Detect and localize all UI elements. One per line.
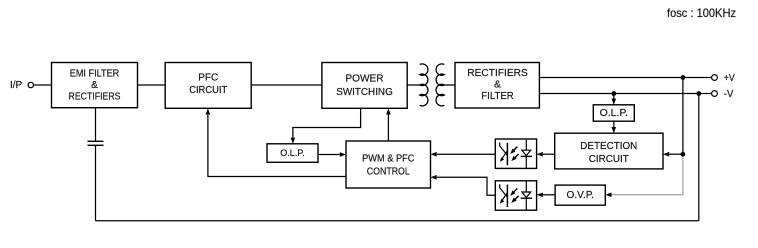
block DETECTION CIRCUIT	[555, 133, 663, 169]
svg-text:CIRCUIT: CIRCUIT	[589, 154, 629, 165]
svg-text:&: &	[494, 79, 501, 90]
wire POWER SWITCHING to primary O.L.P. with down arrow	[291, 108, 361, 143]
junction on -V line right	[696, 91, 701, 96]
transformer T1 secondary winding	[436, 64, 444, 106]
wire O.V.P. to opto2 with left arrow	[537, 193, 556, 198]
wire transformer secondary to rectifiers	[444, 84, 455, 86]
capacitor C1	[88, 141, 104, 145]
wire EMI to PFC	[138, 84, 166, 86]
wire junction to DETECTION CIRCUIT right with left arrow	[663, 152, 683, 157]
wire -V line to O.L.P. with down arrow	[612, 94, 617, 105]
block PFC CIRCUIT	[165, 63, 251, 109]
block O.L.P. (primary side)	[267, 144, 318, 163]
wire +V output line	[539, 77, 711, 79]
wire -V output line	[539, 93, 711, 95]
wire -V junction down to bottom return	[698, 94, 700, 221]
node -V terminal	[712, 89, 734, 100]
block EMI FILTER & RECTIFIERS	[52, 63, 138, 108]
svg-text:+V: +V	[724, 73, 735, 84]
wire vertical from +V junction down to detection tap	[682, 78, 684, 156]
wire opto2 to PWM control with left arrow	[431, 175, 496, 195]
svg-text:CONTROL: CONTROL	[367, 166, 410, 177]
svg-text:fosc : 100KHz: fosc : 100KHz	[667, 6, 736, 20]
wire I/P to EMI filter	[34, 84, 52, 86]
block O.V.P.	[555, 185, 605, 205]
wire PFC to POWER SWITCHING	[251, 84, 322, 86]
wire POWER SWITCHING to transformer primary	[407, 84, 420, 86]
svg-text:O.V.P.: O.V.P.	[567, 190, 594, 201]
wire capacitor down to ground return	[95, 145, 97, 221]
svg-text:SWITCHING: SWITCHING	[336, 87, 393, 98]
svg-text:PWM & PFC: PWM & PFC	[362, 154, 414, 165]
optocoupler U1	[495, 139, 536, 168]
wire PWM control to POWER SWITCHING with up arrow	[386, 108, 391, 141]
wire bottom return line	[96, 220, 699, 222]
wire DETECTION CIRCUIT to opto1 with left arrow	[537, 152, 555, 157]
svg-text:-V: -V	[724, 89, 734, 100]
transformer T1 primary winding	[420, 64, 428, 106]
svg-text:RECTIFIERS: RECTIFIERS	[69, 91, 121, 102]
svg-text:CIRCUIT: CIRCUIT	[189, 85, 227, 96]
node +V terminal	[712, 73, 735, 84]
svg-text:O.L.P.: O.L.P.	[600, 108, 628, 119]
svg-text:O.L.P.: O.L.P.	[280, 148, 305, 159]
block POWER SWITCHING	[322, 63, 407, 109]
svg-text:&: &	[91, 80, 98, 91]
block O.L.P. (secondary side)	[593, 105, 634, 121]
svg-text:I/P: I/P	[10, 80, 23, 91]
node I/P input terminal	[10, 80, 34, 91]
wire EMI filter down to capacitor	[95, 108, 97, 141]
wire O.L.P. to PWM control with right arrow	[318, 152, 346, 157]
block PWM & PFC CONTROL	[346, 141, 431, 188]
optocoupler U2	[495, 181, 536, 210]
wire O.L.P. to DETECTION CIRCUIT with down arrow	[612, 121, 617, 133]
block RECTIFIERS & FILTER	[455, 63, 539, 109]
junction on vertical at detection tap	[681, 152, 686, 157]
svg-text:EMI FILTER: EMI FILTER	[70, 68, 120, 79]
svg-text:POWER: POWER	[345, 74, 383, 85]
junction on +V line	[681, 75, 686, 80]
wire PWM control to PFC circuit with up arrow	[206, 108, 346, 176]
svg-text:DETECTION: DETECTION	[580, 141, 637, 152]
wire gray segment junction down to OVP feed level	[682, 155, 684, 194]
wire vertical feed to O.V.P. with left arrow	[605, 193, 683, 198]
wire opto1 to PWM control with left arrow	[431, 152, 496, 157]
svg-text:FILTER: FILTER	[481, 91, 514, 102]
junction on -V line above O.L.P.	[611, 91, 616, 96]
svg-text:RECTIFIERS: RECTIFIERS	[467, 68, 528, 79]
svg-text:PFC: PFC	[198, 72, 218, 83]
